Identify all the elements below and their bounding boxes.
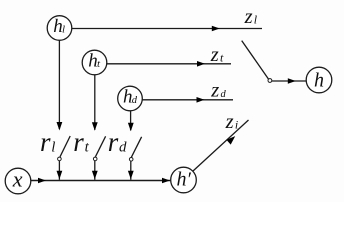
svg-text:h: h bbox=[314, 69, 324, 91]
svg-text:d: d bbox=[221, 89, 227, 100]
svg-text:r: r bbox=[40, 127, 51, 157]
svg-text:x: x bbox=[12, 166, 23, 191]
svg-text:z: z bbox=[244, 6, 253, 28]
svg-text:d: d bbox=[132, 95, 138, 106]
svg-text:h′: h′ bbox=[177, 169, 192, 191]
svg-text:z: z bbox=[225, 111, 234, 133]
svg-text:l: l bbox=[62, 23, 65, 35]
svg-text:i: i bbox=[235, 117, 238, 131]
svg-text:r: r bbox=[73, 127, 84, 157]
svg-text:z: z bbox=[210, 80, 219, 102]
svg-text:l: l bbox=[51, 139, 55, 155]
svg-text:z: z bbox=[210, 44, 219, 66]
svg-text:d: d bbox=[119, 139, 127, 155]
svg-text:r: r bbox=[108, 127, 119, 157]
